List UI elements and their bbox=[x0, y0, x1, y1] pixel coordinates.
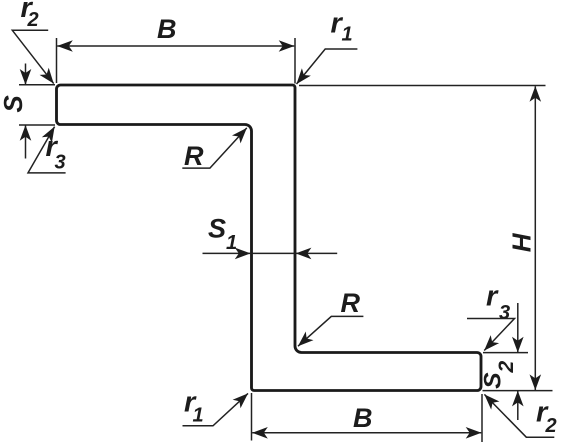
r2 bottom-right leader bbox=[484, 394, 554, 437]
S2 dim arrow top bbox=[517, 303, 519, 352]
S1 dim line left with arrow bbox=[203, 252, 251, 254]
svg-text:S: S bbox=[0, 95, 28, 113]
R bottom leader bbox=[298, 316, 363, 346]
svg-text:S: S bbox=[479, 372, 506, 389]
svg-text:3: 3 bbox=[499, 302, 510, 324]
svg-text:2: 2 bbox=[545, 415, 557, 437]
H extension line top bbox=[299, 85, 546, 87]
r2 top leader bbox=[12, 30, 53, 83]
svg-text:B: B bbox=[157, 14, 177, 44]
r3 top-left leader bbox=[28, 127, 66, 173]
B bottom extension line right bbox=[481, 394, 483, 442]
H dimension line bbox=[534, 86, 536, 390]
svg-text:2: 2 bbox=[27, 9, 39, 31]
S2 / H extension line bottom bbox=[483, 390, 553, 392]
svg-text:1: 1 bbox=[193, 405, 204, 427]
B top extension line right bbox=[294, 38, 296, 84]
svg-text:1: 1 bbox=[226, 232, 237, 254]
r3 bottom-right leader bbox=[467, 319, 515, 351]
S2 extension line top bbox=[483, 352, 528, 354]
S1 dim line across web bbox=[250, 252, 295, 254]
S dim arrow top bbox=[25, 64, 27, 85]
svg-text:1: 1 bbox=[342, 24, 353, 46]
svg-text:R: R bbox=[184, 141, 204, 171]
svg-text:3: 3 bbox=[55, 152, 66, 174]
svg-text:r: r bbox=[486, 281, 499, 313]
svg-text:H: H bbox=[507, 232, 537, 252]
svg-text:B: B bbox=[353, 403, 373, 433]
B bottom extension line left bbox=[251, 393, 253, 441]
svg-text:R: R bbox=[341, 288, 361, 318]
S extension line bottom bbox=[19, 124, 55, 126]
R top leader bbox=[182, 128, 247, 168]
S1 dim line right with arrow bbox=[296, 252, 337, 254]
S dim arrow bottom bbox=[25, 125, 27, 158]
r1 bottom leader bbox=[183, 393, 249, 425]
Z-profile outline bbox=[57, 85, 482, 391]
B top extension line left bbox=[56, 38, 58, 83]
svg-text:S: S bbox=[208, 214, 226, 244]
r1 top leader bbox=[297, 49, 358, 84]
S extension line top bbox=[19, 84, 55, 86]
B top dimension line bbox=[57, 45, 294, 47]
S2 dim arrow bottom bbox=[517, 391, 519, 420]
svg-text:2: 2 bbox=[495, 361, 518, 374]
B bottom dimension line bbox=[252, 432, 481, 434]
